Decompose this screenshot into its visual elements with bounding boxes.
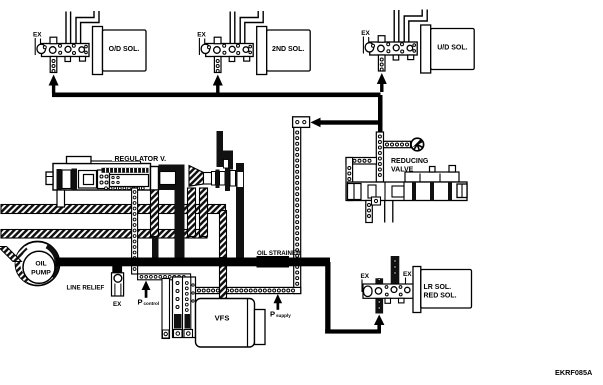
- svg-text:P: P: [270, 310, 275, 319]
- svg-text:P: P: [138, 298, 143, 307]
- node: hatched channel C (to VFS): [220, 211, 227, 258]
- svg-text:LINE RELIEF: LINE RELIEF: [67, 285, 105, 292]
- node: passage to reducing valve (vertical dotted): [376, 132, 383, 182]
- node: vertical dotted channel from regulator: [132, 188, 138, 274]
- svg-text:control: control: [144, 301, 160, 306]
- node: channel from reducing valve to LR valve: [391, 256, 400, 285]
- valve: reducing valve retainer bracket: [372, 197, 381, 205]
- svg-text:U/D SOL.: U/D SOL.: [437, 44, 467, 51]
- node: hatched channel below end plug: [151, 190, 159, 258]
- node: hatched channel C lower part: [220, 266, 227, 301]
- svg-text:OIL STRAINER: OIL STRAINER: [257, 250, 301, 257]
- svg-text:RED SOL.: RED SOL.: [424, 293, 457, 300]
- relief ball symbol: [411, 138, 424, 151]
- svg-text:2ND SOL.: 2ND SOL.: [272, 46, 304, 53]
- svg-text:EX: EX: [33, 32, 42, 39]
- svg-text:EX: EX: [197, 32, 206, 39]
- svg-text:supply: supply: [276, 313, 291, 318]
- svg-text:EX: EX: [403, 271, 412, 278]
- wire: line to LR solenoid: [325, 262, 384, 334]
- node: control pressure passage (vertical dotted): [293, 117, 310, 294]
- node: channel above regulator spool: [217, 131, 242, 170]
- valve: regulator right spool pieces: [159, 164, 236, 192]
- valve: REGULATOR V.: [46, 155, 166, 191]
- node: hatched channel B: [200, 188, 208, 237]
- solenoid valve U/D SOL: [361, 10, 474, 93]
- node: dark channel center: [175, 186, 185, 258]
- svg-text:EX: EX: [113, 301, 122, 308]
- wire: branch to pressure node with arrow: [311, 118, 381, 128]
- arrow: P supply: [270, 294, 291, 319]
- solenoid valve LR SOL RED SOL: [361, 267, 472, 313]
- node: P-supply passage (horizontal dotted): [196, 287, 301, 293]
- svg-text:EX: EX: [361, 273, 370, 280]
- node: reducing valve inlet frame (dotted): [346, 158, 377, 201]
- svg-text:REGULATOR V.: REGULATOR V.: [115, 156, 167, 163]
- oil pump: [0, 242, 60, 286]
- valve: VFS solenoid body plates: [162, 277, 196, 339]
- wire: regulator drain appendage: [57, 190, 65, 207]
- wire: pump discharge main line: [56, 258, 330, 267]
- node: dark channel with window: [236, 163, 244, 258]
- svg-text:O/D SOL.: O/D SOL.: [109, 46, 140, 53]
- node: hatched channel A: [188, 188, 196, 237]
- node: reducing valve outlet (dotted): [366, 201, 373, 223]
- node: line pressure gallery 2 (hatched): [1, 230, 207, 239]
- wire: reducing valve drain lines: [385, 201, 393, 223]
- svg-text:PUMP: PUMP: [31, 270, 51, 277]
- node: line pressure gallery 1 (hatched): [1, 205, 226, 214]
- solenoid valve 2ND SOL: [197, 11, 310, 94]
- svg-text:EX: EX: [361, 30, 370, 37]
- solenoid valve O/D SOL: [33, 11, 146, 94]
- oil strainer: [257, 250, 302, 268]
- node: branch passage to relief ball (horizontal dotted): [384, 141, 411, 147]
- solenoid VFS: [196, 299, 266, 348]
- svg-text:LR SOL.: LR SOL.: [424, 284, 452, 291]
- svg-text:VFS: VFS: [215, 314, 230, 323]
- node: LR valve lower channel: [375, 278, 383, 313]
- wire: line pressure supply to solenoids: [52, 93, 383, 133]
- valve: LINE RELIEF: [67, 266, 124, 309]
- node: P-control passage (dotted): [138, 274, 191, 333]
- svg-text:REDUCING: REDUCING: [391, 158, 429, 165]
- valve: REDUCING VALVE: [348, 158, 468, 201]
- svg-text:OIL: OIL: [35, 261, 46, 268]
- svg-text:EKRF085A: EKRF085A: [555, 368, 593, 377]
- arrow: P control: [138, 281, 160, 307]
